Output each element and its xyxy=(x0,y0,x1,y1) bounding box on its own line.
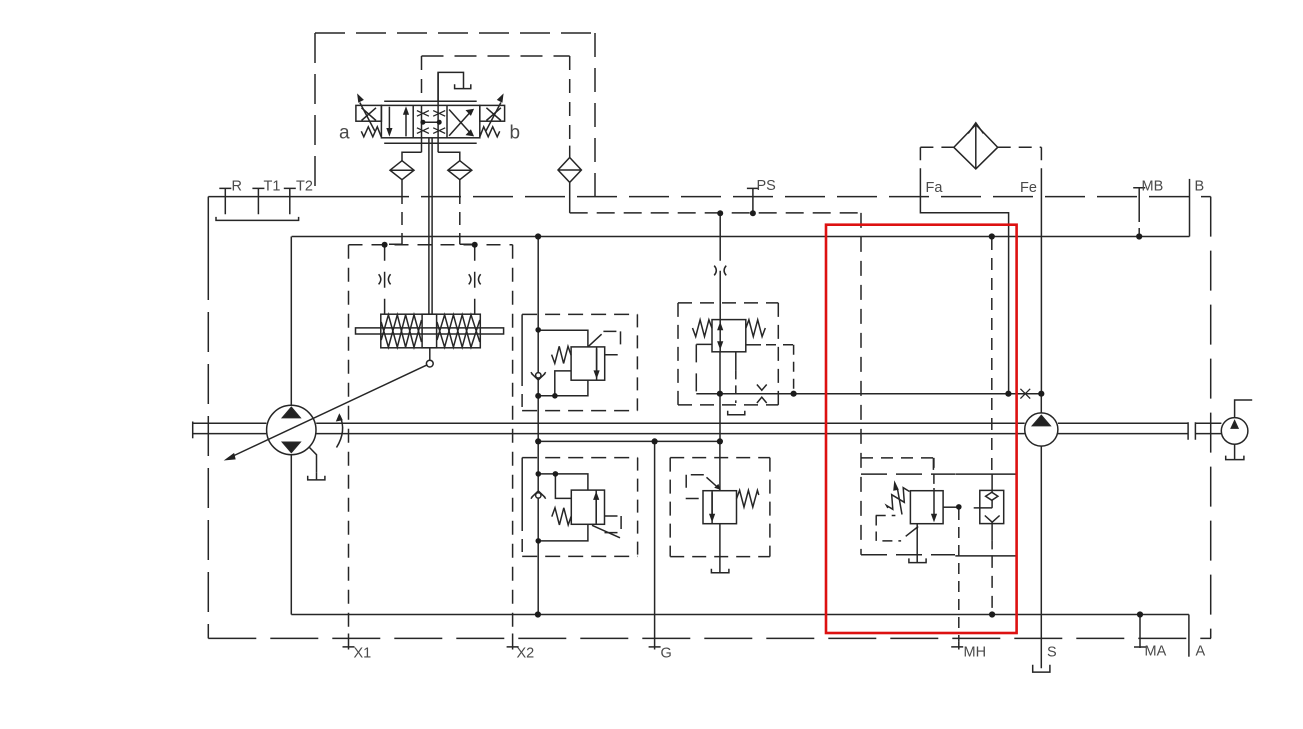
port G tick xyxy=(649,646,661,648)
node X2 line at pressure bus xyxy=(535,233,541,239)
valve V3 enclosure xyxy=(522,457,637,459)
elbow A to left orifice xyxy=(402,152,422,160)
V1 adjust diagonal xyxy=(589,334,602,346)
orifice diamond third (on module edge) xyxy=(558,158,581,183)
check unit chevron xyxy=(985,516,1000,523)
cylinder spring left xyxy=(381,315,421,347)
Fe line xyxy=(1040,176,1042,394)
V4 pilot hook (dashed) xyxy=(686,475,704,499)
node bypass at pressure bus xyxy=(989,233,995,239)
stroking cylinder piston xyxy=(422,314,437,348)
V3 flow arrow up xyxy=(595,500,597,522)
drive shaft double line xyxy=(193,423,267,433)
svg-text:X2: X2 xyxy=(517,646,535,662)
V1 spring xyxy=(552,346,572,363)
pump suction line down xyxy=(290,455,292,615)
outer enclosure right boundary xyxy=(1210,197,1212,639)
X2 dashed line xyxy=(512,245,514,634)
V3 adjust diagonal xyxy=(592,525,620,538)
compensated line (mid horizontal) xyxy=(696,393,1041,395)
node Fa line xyxy=(1005,391,1011,397)
V1 outlet xyxy=(538,380,588,396)
piston rod bar xyxy=(356,328,504,334)
G line xyxy=(654,441,656,649)
P1 up arrowhead xyxy=(403,106,409,115)
actuator enclosure top edge xyxy=(349,244,513,246)
boost pump feed xyxy=(1040,394,1042,413)
svg-text:MB: MB xyxy=(1142,179,1164,195)
pump flow triangle up xyxy=(283,407,300,417)
tank S xyxy=(1033,665,1050,672)
svg-text:T2: T2 xyxy=(296,179,313,195)
plugged connection x-cross near boost pump xyxy=(1020,389,1030,399)
X2 supply line (solid) xyxy=(537,237,539,615)
svg-text:MH: MH xyxy=(964,645,987,661)
check unit sub-enclosure xyxy=(955,474,1016,556)
pilot line left diamond down to cylinder node xyxy=(401,180,403,191)
P3 arrowhead lower right xyxy=(466,129,475,136)
V1 body xyxy=(571,347,605,380)
node valve center left xyxy=(420,120,425,125)
mid bus to compensator and relief xyxy=(538,440,720,442)
pilot line A through valve xyxy=(421,105,423,152)
outer enclosure left boundary xyxy=(207,197,209,260)
control module right edge / relief valve enclosure left edge xyxy=(860,213,862,555)
port MA line xyxy=(1134,615,1146,649)
V4 flow arrow down xyxy=(711,493,713,515)
V2 down arrow head xyxy=(717,341,723,350)
V4 adjust arrow head xyxy=(714,484,720,490)
svg-text:b: b xyxy=(510,123,521,144)
position 1 up arrow xyxy=(405,115,407,137)
flushing filter arrow xyxy=(968,122,983,168)
node PS tee xyxy=(717,210,723,216)
flushing filter diamond xyxy=(954,125,998,169)
auxiliary pump triangle xyxy=(1231,421,1238,428)
inner pilot enclosure top edge xyxy=(422,55,570,57)
V2 bottom pilot to tank xyxy=(735,352,737,371)
flushing filter dashed box xyxy=(920,146,1041,148)
solenoid a box xyxy=(356,105,382,121)
V4 body xyxy=(703,491,737,524)
node X2 line at mid bus xyxy=(535,438,541,444)
V3 outlet xyxy=(538,524,588,541)
pressure bus top xyxy=(292,236,1190,238)
pilot line right diamond down to cylinder node xyxy=(459,180,461,191)
port MB xyxy=(1133,188,1145,214)
check unit inner box xyxy=(980,490,1004,523)
svg-text:X1: X1 xyxy=(354,646,372,662)
boost pump circle xyxy=(1025,413,1058,446)
stroking cylinder body xyxy=(381,314,481,348)
port B line xyxy=(1189,179,1191,237)
V5 outlet to tank xyxy=(916,524,918,562)
PS pilot line with orifice down to compensator xyxy=(719,213,721,319)
V3 body xyxy=(571,490,604,524)
port X1 xyxy=(343,634,355,650)
variable arrow head xyxy=(224,453,236,461)
node port PS xyxy=(750,210,756,216)
arrowheads xyxy=(224,93,937,522)
dashed bypass line bus to bottom bus xyxy=(991,238,993,474)
V5 adjust diagonal lower xyxy=(906,527,919,537)
pump case drain to tank xyxy=(310,448,317,473)
node V1 outlet xyxy=(535,393,541,399)
node Fe line xyxy=(1038,391,1044,397)
bracket under R T1 T2 xyxy=(216,217,299,221)
node cylinder pilot right xyxy=(472,242,478,248)
auxiliary pump outlet xyxy=(1235,400,1253,418)
position 1 down arrow xyxy=(388,107,390,129)
svg-text:Fa: Fa xyxy=(926,180,944,196)
V3 pilot hook (dashed) xyxy=(605,516,622,533)
V4 outlet to tank xyxy=(719,524,721,573)
node X2 line at bottom bus xyxy=(535,611,541,617)
Fa line xyxy=(920,176,1008,394)
outer enclosure top boundary xyxy=(208,196,369,198)
relief valve V5 enclosure (stepped) xyxy=(861,458,933,474)
V3 arrow head xyxy=(593,491,599,500)
svg-text:S: S xyxy=(1047,645,1057,661)
pilot valve body xyxy=(381,105,479,137)
svg-text:MA: MA xyxy=(1145,644,1167,660)
node V5 outlet to MH xyxy=(956,504,962,510)
port PS xyxy=(747,188,759,213)
orifice diamond right xyxy=(448,161,472,180)
orifice diamond left xyxy=(390,161,414,180)
V5 flow arrow down xyxy=(933,488,935,515)
valve V4 enclosure xyxy=(670,458,770,557)
V2 right pilot xyxy=(746,344,761,346)
node V1 drain xyxy=(552,393,558,399)
node V3 spring feed xyxy=(553,471,559,477)
main pump circle xyxy=(267,405,316,454)
check unit internal line xyxy=(991,474,993,540)
V1 flow arrow down xyxy=(596,349,598,371)
V1 inlet xyxy=(538,330,588,347)
junction dots group xyxy=(382,120,1144,618)
shaft coupling xyxy=(1188,422,1195,439)
plugged connection (hourglass) xyxy=(757,385,767,404)
check valve on X2 line upper xyxy=(536,373,541,378)
cylinder spring right xyxy=(437,315,480,347)
pilot line B through valve xyxy=(437,72,439,152)
V5 spring (diagonal) xyxy=(887,488,910,510)
node V2 pilot xyxy=(791,391,797,397)
node G line xyxy=(652,438,658,444)
node compensated line left xyxy=(717,391,723,397)
svg-text:a: a xyxy=(339,123,350,144)
MH pilot line (dashed) xyxy=(958,509,960,642)
node cylinder pilot left xyxy=(382,242,388,248)
node V3 inlet xyxy=(536,471,542,477)
control module boundary (dashed, to port MH side) xyxy=(570,212,861,214)
V5 arrow head xyxy=(931,514,937,523)
node V3 outlet xyxy=(536,538,542,544)
V4 adjust diagonal xyxy=(707,477,720,488)
port T2 xyxy=(284,188,296,214)
port X2 xyxy=(507,634,519,650)
node bypass at bottom bus xyxy=(989,611,995,617)
V3 spring xyxy=(552,508,572,525)
V5 body xyxy=(910,491,943,524)
proportional solenoid arrow b xyxy=(486,103,501,132)
actuator enclosure left edge / X1 line xyxy=(348,245,350,634)
rotation arc arrow xyxy=(337,416,343,448)
pump flow triangle down xyxy=(283,442,300,452)
port MH tick xyxy=(951,642,963,650)
cylinder pilot line right with damping orifice xyxy=(474,245,476,314)
port T1 xyxy=(252,188,264,214)
cylinder pilot line left with damping orifice xyxy=(384,245,386,314)
spring b xyxy=(480,127,500,137)
check valve on X2 line lower xyxy=(536,493,541,498)
V2 body xyxy=(712,320,746,352)
V4 inlet xyxy=(719,441,721,490)
node V4 inlet xyxy=(717,438,723,444)
V2 tank xyxy=(728,411,745,415)
node V1 inlet xyxy=(535,327,541,333)
V1 pilot hook (dashed) xyxy=(603,331,621,354)
shaft end cap xyxy=(192,422,194,439)
V2 spring left xyxy=(693,320,713,337)
check unit orifice diamond xyxy=(986,492,998,500)
svg-text:G: G xyxy=(661,646,672,662)
V4 arrow head xyxy=(709,514,715,523)
elbow B to right orifice xyxy=(438,152,460,160)
solenoid b box xyxy=(480,105,505,121)
V4 spring right xyxy=(737,490,759,507)
P1 down arrowhead xyxy=(386,128,392,137)
pilot valve parallel line bottom xyxy=(384,142,477,144)
valve V1 enclosure xyxy=(522,313,637,315)
position 3 crossed arrows xyxy=(449,112,470,136)
V3 spring chamber feed xyxy=(555,474,571,499)
svg-text:A: A xyxy=(1196,644,1206,660)
feedback rod double line xyxy=(429,138,432,314)
port R xyxy=(219,188,231,214)
bottom bus xyxy=(291,614,1189,616)
center position connecting line xyxy=(423,121,439,123)
V3 inlet xyxy=(538,474,588,490)
inner pilot enclosure left edge xyxy=(421,56,423,101)
V2 center line through xyxy=(719,320,721,352)
red highlight rectangle xyxy=(826,225,1017,633)
node MA xyxy=(1137,611,1143,617)
V1 spring chamber drain xyxy=(555,371,571,396)
feedback pivot link xyxy=(429,348,431,360)
V1 arrow head xyxy=(594,370,600,379)
pilot valve parallel line top xyxy=(384,100,477,102)
auxiliary pump circle xyxy=(1221,418,1248,445)
variable displacement arrow xyxy=(232,365,428,457)
node MB at pressure bus xyxy=(1136,233,1142,239)
PS line continues through compensator to lower bus xyxy=(719,352,721,442)
pump pressure line up to bus xyxy=(290,237,292,406)
prop solenoid arrowhead a xyxy=(357,93,364,102)
V2 up arrow head xyxy=(717,322,723,331)
outer enclosure bottom boundary xyxy=(208,637,1211,639)
svg-text:T1: T1 xyxy=(264,179,281,195)
prop solenoid arrowhead b xyxy=(497,93,504,102)
node valve center right xyxy=(437,120,442,125)
V5 pilot bracket (dashed) xyxy=(876,516,901,541)
valve V2 (compensator) enclosure xyxy=(678,303,778,405)
spring a xyxy=(361,127,381,137)
svg-text:PS: PS xyxy=(757,178,776,194)
V5 right port to check unit xyxy=(943,506,959,508)
tank symbol above pilot valve xyxy=(438,72,463,101)
P3 arrowhead upper right xyxy=(466,109,475,116)
suction line S xyxy=(1040,446,1042,668)
V5 inlet (dashed from module edge) xyxy=(933,458,935,488)
rotation arc head xyxy=(336,413,343,421)
svg-text:B: B xyxy=(1195,179,1205,195)
svg-text:Fe: Fe xyxy=(1020,180,1037,196)
port A line xyxy=(1188,615,1190,657)
pilot valve enclosure (top dashed box) xyxy=(315,32,595,34)
svg-text:R: R xyxy=(232,179,242,195)
V2 spring right xyxy=(746,320,766,337)
proportional solenoid arrow a xyxy=(360,103,375,132)
boost pump triangle xyxy=(1033,416,1050,426)
inner pilot enclosure right edge xyxy=(569,56,571,146)
V5 spring adjust arrow head xyxy=(893,480,899,490)
V5 adjust arrow through spring xyxy=(898,490,902,515)
V2 left drain to mid line xyxy=(696,344,712,393)
auxiliary pump drain tank xyxy=(1234,444,1236,459)
center position metering notches xyxy=(417,111,445,134)
